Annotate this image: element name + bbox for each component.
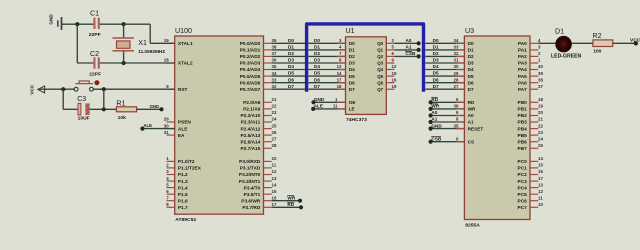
svg-text:PB4: PB4 — [518, 126, 528, 132]
svg-text:23: 23 — [272, 110, 277, 115]
svg-text:P2.3/A11: P2.3/A11 — [241, 120, 261, 126]
svg-text:D3: D3 — [314, 58, 320, 63]
svg-text:C1: C1 — [90, 10, 99, 18]
svg-text:AT89C52: AT89C52 — [175, 217, 196, 223]
svg-text:CSB: CSB — [406, 51, 417, 56]
svg-text:P0.0/AD0: P0.0/AD0 — [240, 41, 261, 47]
svg-text:34: 34 — [454, 38, 459, 43]
svg-text:D3: D3 — [433, 58, 439, 63]
svg-text:A1: A1 — [406, 45, 412, 50]
svg-text:R1: R1 — [116, 99, 125, 107]
svg-text:D4: D4 — [314, 64, 320, 69]
svg-text:Q3: Q3 — [377, 61, 383, 66]
svg-text:100: 100 — [593, 49, 601, 55]
svg-text:P0.2/AD2: P0.2/AD2 — [240, 54, 261, 60]
svg-text:P3.1/TXD: P3.1/TXD — [240, 166, 261, 172]
svg-text:PA4: PA4 — [518, 67, 527, 73]
svg-text:PB6: PB6 — [518, 139, 528, 145]
svg-text:PB3: PB3 — [518, 120, 528, 126]
svg-text:P0.1/AD1: P0.1/AD1 — [240, 48, 261, 54]
svg-text:D2: D2 — [349, 54, 355, 59]
svg-text:D4: D4 — [433, 64, 439, 69]
svg-text:D6: D6 — [468, 80, 474, 85]
svg-text:A0: A0 — [406, 38, 412, 43]
svg-text:32: 32 — [272, 84, 277, 89]
svg-text:P0.6/AD6: P0.6/AD6 — [240, 80, 261, 86]
svg-text:A1: A1 — [468, 120, 474, 125]
svg-text:P2.2/A10: P2.2/A10 — [240, 113, 260, 119]
svg-text:P2.7/A15: P2.7/A15 — [240, 146, 260, 152]
svg-text:13: 13 — [538, 182, 543, 187]
svg-text:A1: A1 — [431, 117, 437, 122]
svg-text:Q5: Q5 — [377, 74, 383, 79]
svg-text:27: 27 — [454, 84, 459, 89]
svg-text:X1: X1 — [138, 39, 147, 47]
svg-text:40: 40 — [538, 64, 543, 69]
svg-text:D0: D0 — [288, 38, 294, 43]
svg-text:P0.4/AD4: P0.4/AD4 — [240, 67, 261, 73]
svg-text:P1.1/T2EX: P1.1/T2EX — [178, 166, 202, 172]
svg-text:35: 35 — [454, 123, 459, 128]
svg-text:19: 19 — [164, 38, 169, 43]
svg-text:D2: D2 — [433, 51, 439, 56]
svg-text:RD: RD — [468, 100, 475, 105]
svg-text:D6: D6 — [314, 77, 320, 82]
svg-text:D4: D4 — [468, 67, 474, 72]
svg-text:Q4: Q4 — [377, 67, 383, 72]
svg-text:38: 38 — [538, 77, 543, 82]
svg-text:19: 19 — [538, 104, 543, 109]
svg-text:15: 15 — [538, 163, 543, 168]
svg-text:U3: U3 — [465, 27, 474, 35]
svg-text:PA1: PA1 — [518, 48, 527, 54]
svg-text:C2: C2 — [90, 50, 99, 58]
svg-text:P3.0/RXD: P3.0/RXD — [239, 159, 261, 165]
svg-text:D0: D0 — [314, 38, 320, 43]
svg-text:17: 17 — [538, 176, 543, 181]
svg-text:Q2: Q2 — [377, 54, 383, 59]
svg-text:RD: RD — [287, 202, 294, 207]
svg-text:D3: D3 — [349, 61, 355, 66]
svg-text:D5: D5 — [468, 74, 474, 79]
svg-text:20: 20 — [538, 110, 543, 115]
svg-text:11: 11 — [272, 163, 277, 168]
svg-text:P0.5/AD5: P0.5/AD5 — [240, 74, 261, 80]
svg-text:23: 23 — [538, 130, 543, 135]
svg-text:RST: RST — [178, 87, 188, 93]
svg-text:PA2: PA2 — [518, 54, 527, 60]
svg-text:D1: D1 — [314, 45, 320, 50]
svg-text:VCC: VCC — [630, 37, 640, 43]
svg-text:D0: D0 — [349, 41, 355, 46]
svg-text:P2.4/A12: P2.4/A12 — [240, 126, 260, 132]
svg-text:D7: D7 — [288, 84, 294, 89]
svg-text:24: 24 — [538, 136, 543, 141]
svg-text:24: 24 — [272, 117, 277, 122]
svg-text:WR: WR — [468, 107, 476, 112]
svg-text:Q7: Q7 — [377, 87, 383, 92]
svg-text:LE: LE — [349, 107, 355, 112]
svg-text:PB1: PB1 — [518, 107, 528, 113]
svg-text:38: 38 — [272, 45, 277, 50]
svg-text:12: 12 — [272, 169, 277, 174]
svg-text:18: 18 — [538, 97, 543, 102]
svg-text:D7: D7 — [433, 84, 439, 89]
svg-text:PC6: PC6 — [518, 198, 528, 204]
svg-text:P3.4/T0: P3.4/T0 — [244, 185, 261, 191]
svg-text:C3: C3 — [77, 95, 86, 103]
svg-text:PA6: PA6 — [518, 80, 527, 86]
svg-text:D5: D5 — [288, 71, 294, 76]
svg-text:ALE: ALE — [178, 126, 188, 132]
svg-text:74HC373: 74HC373 — [346, 117, 367, 123]
svg-text:P0.3/AD3: P0.3/AD3 — [240, 61, 261, 67]
svg-text:22PF: 22PF — [89, 32, 101, 38]
svg-text:P1.5: P1.5 — [178, 192, 188, 198]
svg-text:29: 29 — [454, 71, 459, 76]
svg-text:13: 13 — [337, 64, 342, 69]
svg-text:PSEN: PSEN — [178, 120, 192, 126]
svg-text:15: 15 — [272, 189, 277, 194]
svg-text:GND: GND — [49, 14, 54, 25]
svg-text:Q1: Q1 — [377, 48, 383, 53]
svg-text:P3.7/RD: P3.7/RD — [242, 205, 261, 211]
svg-text:P1.6: P1.6 — [178, 198, 188, 204]
svg-text:R2: R2 — [593, 32, 602, 40]
svg-text:11: 11 — [333, 104, 338, 109]
svg-text:35: 35 — [272, 64, 277, 69]
svg-text:ALE: ALE — [314, 104, 323, 109]
svg-text:11.0592MHZ: 11.0592MHZ — [138, 49, 165, 54]
svg-text:D6: D6 — [349, 80, 355, 85]
svg-text:WR: WR — [431, 104, 439, 109]
svg-text:PC5: PC5 — [518, 192, 528, 198]
svg-text:Q0: Q0 — [377, 41, 383, 46]
svg-text:XTAL2: XTAL2 — [178, 61, 193, 67]
svg-text:31: 31 — [454, 58, 459, 63]
svg-text:25: 25 — [272, 123, 277, 128]
svg-text:D3: D3 — [288, 58, 294, 63]
svg-text:GND: GND — [314, 97, 325, 102]
svg-text:P1.3: P1.3 — [178, 179, 188, 185]
svg-text:PC0: PC0 — [518, 159, 528, 165]
svg-text:D3: D3 — [468, 61, 474, 66]
svg-text:PC1: PC1 — [518, 166, 528, 172]
svg-text:12: 12 — [392, 64, 397, 69]
svg-text:PB2: PB2 — [518, 113, 528, 119]
svg-text:VCC: VCC — [30, 84, 35, 95]
svg-text:RESET: RESET — [468, 126, 484, 131]
svg-text:CS: CS — [468, 139, 475, 144]
svg-text:WR: WR — [287, 195, 295, 200]
svg-text:U100: U100 — [175, 27, 192, 35]
svg-text:GND: GND — [150, 104, 160, 109]
svg-text:10k: 10k — [118, 115, 126, 121]
svg-text:PB0: PB0 — [518, 100, 528, 106]
svg-text:PA5: PA5 — [518, 74, 527, 80]
svg-text:15: 15 — [392, 71, 397, 76]
svg-text:37: 37 — [538, 84, 543, 89]
svg-text:14: 14 — [272, 182, 277, 187]
svg-text:D2: D2 — [314, 51, 320, 56]
svg-text:P3.3/INT1: P3.3/INT1 — [239, 179, 261, 185]
svg-text:D7: D7 — [349, 87, 355, 92]
svg-text:D5: D5 — [349, 74, 355, 79]
svg-text:39: 39 — [538, 71, 543, 76]
svg-text:33: 33 — [272, 77, 277, 82]
svg-text:PC3: PC3 — [518, 179, 528, 185]
svg-text:16: 16 — [272, 195, 277, 200]
svg-text:28: 28 — [272, 143, 277, 148]
svg-text:LED-GREEN: LED-GREEN — [551, 54, 582, 60]
svg-text:P0.7/AD7: P0.7/AD7 — [240, 87, 261, 93]
svg-text:11: 11 — [538, 195, 543, 200]
svg-text:18: 18 — [164, 58, 169, 63]
svg-text:P3.5/T1: P3.5/T1 — [244, 192, 261, 198]
svg-text:36: 36 — [272, 58, 277, 63]
svg-text:PB7: PB7 — [518, 146, 528, 152]
svg-text:PC2: PC2 — [518, 172, 528, 178]
svg-text:18: 18 — [337, 84, 342, 89]
svg-text:P3.6/WR: P3.6/WR — [241, 198, 261, 204]
svg-text:13: 13 — [272, 176, 277, 181]
svg-text:D2: D2 — [288, 51, 294, 56]
svg-text:37: 37 — [272, 51, 277, 56]
svg-text:U1: U1 — [346, 27, 355, 35]
svg-text:D2: D2 — [468, 54, 474, 59]
svg-text:17: 17 — [272, 202, 277, 207]
svg-text:D0: D0 — [468, 41, 474, 46]
svg-text:D5: D5 — [314, 71, 320, 76]
svg-text:26: 26 — [272, 130, 277, 135]
svg-text:P1.0/T2: P1.0/T2 — [178, 159, 195, 165]
svg-text:P2.5/A13: P2.5/A13 — [240, 133, 260, 139]
svg-text:17: 17 — [337, 77, 342, 82]
svg-text:D1: D1 — [555, 27, 564, 35]
svg-text:XTAL1: XTAL1 — [178, 41, 193, 47]
svg-text:D1: D1 — [349, 48, 355, 53]
svg-text:36: 36 — [454, 104, 459, 109]
svg-text:PC7: PC7 — [518, 205, 528, 211]
svg-text:P2.1/A9: P2.1/A9 — [243, 107, 261, 113]
svg-text:PA3: PA3 — [518, 61, 527, 67]
svg-text:D7: D7 — [314, 84, 320, 89]
svg-text:21: 21 — [272, 97, 277, 102]
svg-text:14: 14 — [337, 71, 342, 76]
svg-text:EA: EA — [178, 133, 185, 139]
svg-text:D4: D4 — [288, 64, 294, 69]
svg-text:22: 22 — [538, 123, 543, 128]
svg-text:10UF: 10UF — [78, 116, 90, 122]
svg-text:33: 33 — [454, 45, 459, 50]
svg-text:39: 39 — [272, 38, 277, 43]
svg-text:PC4: PC4 — [518, 185, 528, 191]
svg-text:30: 30 — [164, 123, 169, 128]
svg-text:ALE: ALE — [143, 123, 152, 128]
svg-text:30: 30 — [454, 64, 459, 69]
svg-text:CSB: CSB — [431, 136, 442, 141]
svg-text:GND: GND — [431, 123, 442, 128]
svg-text:16: 16 — [538, 169, 543, 174]
svg-text:29: 29 — [164, 117, 169, 122]
svg-text:16: 16 — [392, 77, 397, 82]
svg-text:D4: D4 — [349, 67, 355, 72]
svg-text:10: 10 — [538, 202, 543, 207]
svg-text:Q6: Q6 — [377, 80, 383, 85]
svg-text:P1.2: P1.2 — [178, 172, 188, 178]
svg-text:PA7: PA7 — [518, 87, 527, 93]
svg-text:D6: D6 — [288, 77, 294, 82]
svg-text:19: 19 — [392, 84, 397, 89]
svg-text:D1: D1 — [468, 48, 474, 53]
svg-text:P3.2/INT0: P3.2/INT0 — [239, 172, 261, 178]
svg-text:D5: D5 — [433, 71, 439, 76]
svg-text:D0: D0 — [433, 38, 439, 43]
svg-text:27: 27 — [272, 136, 277, 141]
svg-text:OE: OE — [349, 100, 356, 105]
svg-text:25: 25 — [538, 143, 543, 148]
svg-text:P2.6/A14: P2.6/A14 — [240, 139, 260, 145]
svg-text:A0: A0 — [468, 113, 474, 118]
svg-text:22PF: 22PF — [89, 71, 101, 77]
svg-text:31: 31 — [164, 130, 169, 135]
svg-text:P2.0/A8: P2.0/A8 — [243, 100, 261, 106]
svg-text:PA0: PA0 — [518, 41, 527, 47]
svg-text:14: 14 — [538, 156, 543, 161]
svg-text:8255A: 8255A — [465, 223, 480, 229]
svg-text:D6: D6 — [433, 77, 439, 82]
svg-text:RD: RD — [431, 97, 438, 102]
svg-text:D1: D1 — [433, 45, 439, 50]
svg-text:21: 21 — [538, 117, 543, 122]
svg-text:D1: D1 — [288, 45, 294, 50]
svg-text:10: 10 — [272, 156, 277, 161]
svg-text:A0: A0 — [431, 110, 437, 115]
svg-text:28: 28 — [454, 77, 459, 82]
svg-text:PB5: PB5 — [518, 133, 528, 139]
svg-text:P1.7: P1.7 — [178, 205, 188, 211]
svg-text:34: 34 — [272, 71, 277, 76]
svg-text:32: 32 — [454, 51, 459, 56]
svg-text:22: 22 — [272, 104, 277, 109]
svg-text:P1.4: P1.4 — [178, 185, 188, 191]
svg-text:D7: D7 — [468, 87, 474, 92]
svg-text:12: 12 — [538, 189, 543, 194]
